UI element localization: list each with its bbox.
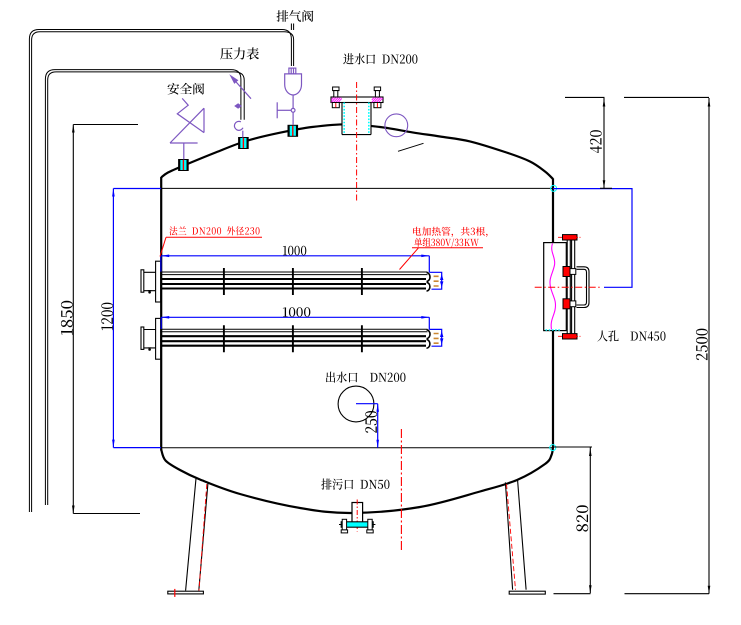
label manhole (597, 330, 665, 341)
dimension 250 line (356, 404, 378, 448)
inlet flange hatch right (372, 97, 383, 102)
dimension text 1000 upper (283, 246, 306, 256)
dimension text 1000 lower (283, 307, 310, 317)
heater bundle 2 flange neck (144, 330, 156, 348)
heater bundle 1 tubes (162, 272, 428, 289)
safety valve symbol (170, 98, 204, 159)
heater bundle 2 flange end plate (141, 327, 144, 349)
inlet neck gasket dotted lines (343, 103, 345, 135)
heater bundle 2 tubes (162, 329, 428, 346)
label pressure gauge (220, 47, 259, 59)
inlet flange hatch left (331, 97, 342, 102)
inlet centerline (356, 82, 358, 202)
red note flange DN200 (169, 226, 259, 235)
label outlet (326, 372, 406, 383)
tank shell right wall lower segment (552, 331, 554, 447)
manhole cover flange plates (567, 236, 570, 338)
dimension text 1850 (61, 301, 73, 335)
outer pipe run from vent valve to left side (29, 30, 291, 513)
dimension 1000 lower line (161, 316, 429, 318)
inlet bolt right (374, 87, 381, 108)
dimension text 820 (576, 505, 588, 531)
manhole centerline (535, 286, 601, 288)
vent valve nozzle flange (288, 125, 298, 137)
dimension text 250 (365, 411, 377, 433)
dimension text 1200 (101, 303, 113, 330)
pressure gauge arrow (229, 74, 238, 84)
vent pipe stub to label (291, 24, 293, 31)
red note heater line1 (413, 227, 487, 237)
dimension 1000 upper extension drop (160, 256, 162, 272)
dimension 820 line (589, 448, 591, 594)
dimension 820 extension line (554, 447, 593, 594)
heater bundle 2 element tips (434, 334, 439, 344)
drain flange plate (341, 522, 373, 527)
tank shell top head (dome) (161, 124, 553, 179)
label drain (321, 479, 389, 490)
inner pipe run from pressure gauge to left side (45, 70, 241, 505)
heater bundle 2 mounting plate (156, 318, 161, 359)
dimension 1850 line (73, 125, 140, 514)
dimension 2500 line (708, 98, 710, 594)
label safety valve (168, 83, 205, 95)
level gauge circle on top head (385, 114, 408, 137)
dimension 1200 line (113, 189, 161, 448)
manhole bolt middle lower (563, 299, 570, 309)
heater bundle 2 return bends (427, 330, 431, 348)
cyan node marker top right tangent (551, 185, 557, 191)
drain nozzle neck (352, 503, 363, 525)
heater bundle 1 right bracket (429, 256, 441, 289)
heater bundle 1 element tips (434, 276, 439, 286)
manhole bolt middle upper (563, 267, 570, 277)
right leg base plate (509, 591, 545, 594)
weld mark on top head (398, 143, 424, 151)
manhole davit bracket (577, 267, 590, 308)
dimension 1000 lower extension drop (160, 317, 162, 329)
heater bundle 2 support ticks (224, 325, 362, 352)
cyan node marker bottom right tangent (550, 445, 556, 451)
left leg base plate (168, 591, 204, 594)
red note heater line2 (414, 238, 479, 248)
drain bolt left (339, 519, 348, 533)
auxiliary centerline right of drain (400, 429, 402, 550)
inlet bolt left (332, 87, 339, 108)
dimension text 420 (590, 130, 602, 153)
drain centerline (356, 500, 358, 532)
heater bundle 1 flange neck (144, 272, 156, 290)
heater bundle 1 mounting plate (156, 261, 161, 302)
heater bundle 2 drain plug (148, 348, 151, 350)
left leg centerline (199, 484, 207, 591)
heater bundle 1 drain plug (148, 291, 151, 293)
label vent valve (277, 10, 314, 22)
heater bundle 2 right bracket (429, 317, 441, 346)
dimension 2500 extension lines (624, 97, 709, 593)
pressure gauge nozzle flange (239, 137, 249, 149)
right leg centerline (507, 484, 516, 590)
left leg (186, 478, 208, 590)
red note flange underline and leader (160, 237, 262, 256)
right leg (505, 479, 526, 590)
left leg base plate red tick (174, 589, 176, 597)
drain bolt right (367, 519, 376, 533)
vent valve symbol (277, 68, 301, 125)
outlet circle (338, 386, 374, 422)
manhole bolt top (563, 235, 578, 240)
tank shell left wall (160, 177, 162, 451)
heater bundle 1 return bends (427, 273, 430, 291)
manhole blue reference path (553, 189, 632, 288)
inlet nozzle neck (342, 103, 371, 135)
tank shell right wall upper segment (552, 179, 554, 243)
heater bundle 1 support ticks (224, 268, 362, 295)
tank shell bottom head (dome) (161, 447, 553, 513)
red note heater underline and leader (400, 248, 484, 270)
manhole bolt bottom (563, 334, 578, 339)
manhole neck bottom gasket (546, 329, 561, 331)
safety valve nozzle flange (179, 159, 189, 171)
top tangent seam line (161, 187, 553, 189)
manhole gasket wavy line (550, 244, 556, 330)
dimension 420 line (603, 98, 605, 188)
dimension 1000 upper line (161, 255, 429, 257)
pressure gauge diamond (234, 103, 242, 108)
inlet flange plate (331, 97, 383, 103)
dimension 420 extension lines (565, 97, 612, 188)
dimension text 2500 (696, 329, 708, 360)
bottom tangent seam line (161, 447, 553, 449)
pressure gauge symbol (233, 79, 251, 138)
heater bundle 1 flange end plate (141, 270, 144, 292)
label inlet (343, 53, 417, 64)
manhole neck (544, 243, 567, 331)
